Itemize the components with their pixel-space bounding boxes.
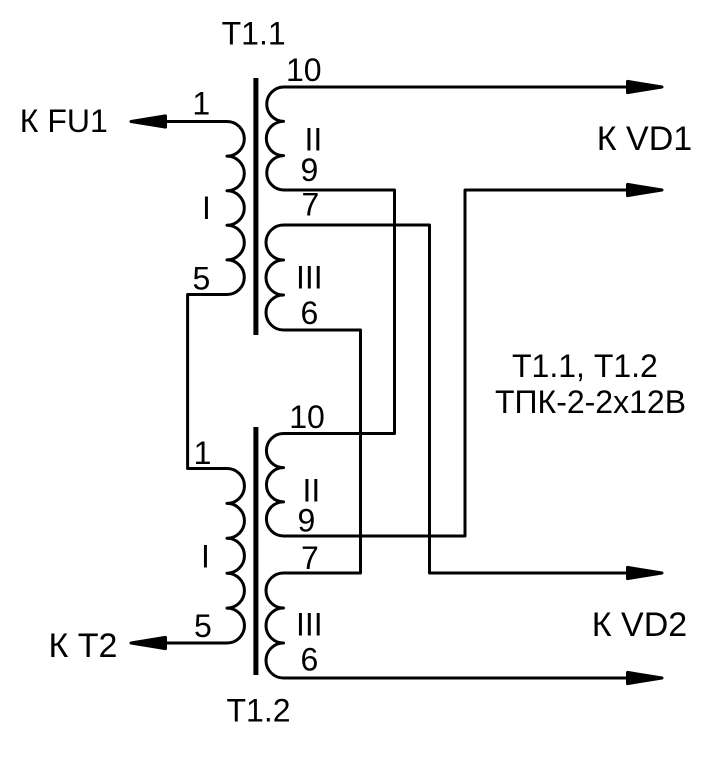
wire pin 5 T1.1 to pin 1 T1.2 (188, 295, 227, 469)
svg-text:Т1.2: Т1.2 (227, 693, 291, 729)
svg-text:5: 5 (194, 608, 212, 644)
svg-text:Т1.1: Т1.1 (222, 16, 286, 52)
wire pin 9 T1.1 to pin 10 T1.2 (284, 190, 395, 434)
svg-text:1: 1 (192, 86, 210, 122)
svg-text:I: I (201, 539, 210, 575)
svg-text:ТПК-2-2х12В: ТПК-2-2х12В (495, 384, 686, 420)
winding II of transformer T1.1 (pins 10-9) (266, 87, 283, 190)
svg-text:I: I (202, 190, 211, 226)
svg-text:6: 6 (301, 642, 319, 678)
winding III of transformer T1.1 (pins 7-6) (266, 225, 284, 330)
arrowhead K FU1 (131, 116, 166, 127)
arrowhead K T2 (131, 637, 166, 648)
wire pin 9 T1.2 to K VD1 (284, 190, 629, 536)
svg-text:7: 7 (301, 540, 319, 576)
svg-text:10: 10 (286, 52, 322, 88)
core of transformer T1.2 (253, 427, 258, 675)
wire pin 6 T1.1 to pin 7 T1.2 (284, 330, 361, 573)
wire pin 5 T1.2 to K T2 (166, 642, 227, 645)
svg-text:III: III (296, 607, 323, 643)
svg-text:Т1.1, Т1.2: Т1.1, Т1.2 (512, 348, 658, 384)
svg-text:6: 6 (301, 295, 319, 331)
svg-text:10: 10 (289, 399, 325, 435)
svg-text:К Т2: К Т2 (49, 627, 118, 665)
winding III of transformer T1.2 (pins 7-6) (266, 573, 284, 678)
core of transformer T1.1 (253, 78, 258, 335)
wire pin 1 T1.1 to K FU1 (166, 120, 227, 123)
svg-text:9: 9 (298, 503, 316, 539)
svg-text:1: 1 (194, 435, 212, 471)
svg-text:К FU1: К FU1 (20, 103, 108, 139)
svg-text:7: 7 (302, 187, 320, 223)
svg-text:К VD2: К VD2 (592, 606, 687, 644)
wire pin 7 T1.1 to K VD2 (284, 225, 629, 573)
winding I of transformer T1.2 (pins 1-5) (227, 469, 244, 644)
arrowhead pin 10 T1.1 output (628, 81, 663, 92)
arrowhead pin 6 T1.2 output (628, 672, 663, 683)
svg-text:III: III (296, 260, 323, 296)
winding II of transformer T1.2 (pins 10-9) (266, 434, 283, 537)
arrowhead K VD2 (628, 567, 663, 578)
arrowhead K VD1 (628, 184, 663, 195)
wire pin 6 T1.2 to VD2 bridge (284, 677, 629, 680)
svg-text:5: 5 (193, 261, 211, 297)
wire pin 10 T1.1 to VD1 bridge (284, 86, 629, 89)
svg-text:9: 9 (301, 152, 319, 188)
winding I of transformer T1.1 (pins 1-5) (227, 122, 244, 295)
svg-text:К VD1: К VD1 (597, 120, 692, 158)
